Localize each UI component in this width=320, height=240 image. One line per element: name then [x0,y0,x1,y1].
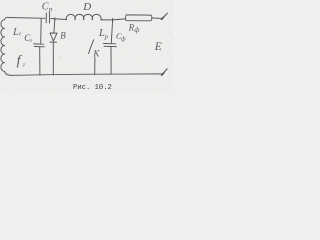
svg-text:К: К [92,48,100,58]
svg-text:E: E [154,41,162,53]
svg-text:В: В [60,30,66,40]
svg-text:C: C [42,1,49,12]
svg-text:Рис. 10.2: Рис. 10.2 [73,84,112,92]
svg-text:ф: ф [134,26,139,34]
svg-text:p: p [48,6,53,14]
svg-text:ф: ф [121,36,126,43]
svg-text:D: D [82,1,91,13]
svg-text:L: L [12,27,19,38]
svg-text:p: p [104,34,109,41]
